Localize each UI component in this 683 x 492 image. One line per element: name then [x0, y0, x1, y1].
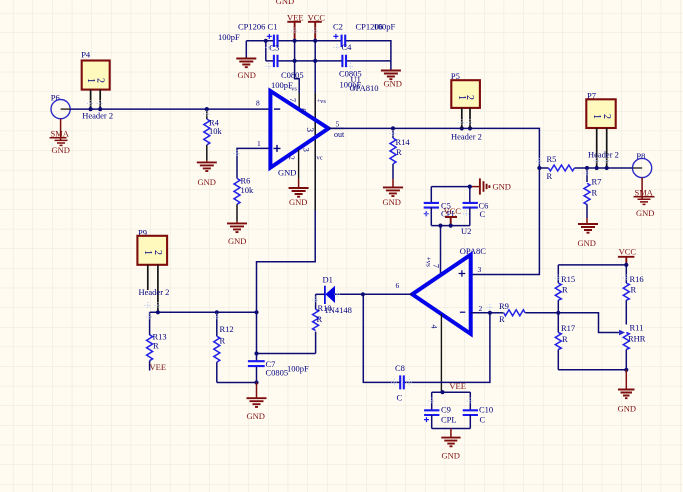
svg-text:GND: GND [228, 236, 246, 246]
op-amp U1 OPA810 [256, 86, 345, 168]
svg-text:R10: R10 [318, 303, 332, 313]
svg-text:CP1206 C1: CP1206 C1 [238, 21, 277, 31]
svg-text:+vs: +vs [317, 98, 327, 105]
power port VEE at C9/C10 [449, 381, 466, 391]
svg-text:C: C [480, 209, 486, 219]
svg-text:R: R [396, 147, 402, 157]
diode D1 1N4148 [316, 274, 413, 315]
svg-text:3: 3 [304, 127, 314, 132]
wire C5/C6 top [431, 186, 470, 188]
wire U2 pin2 row [471, 312, 490, 314]
svg-text:1: 1 [85, 78, 96, 83]
svg-text:2: 2 [601, 114, 612, 119]
svg-text:Header 2: Header 2 [451, 131, 482, 141]
svg-text:C2: C2 [333, 21, 343, 31]
svg-text:OPA8C: OPA8C [460, 246, 486, 256]
svg-text:R: R [592, 188, 598, 198]
junction dot R7 tap [585, 166, 589, 170]
svg-text:VEE: VEE [150, 362, 167, 372]
svg-text:R9: R9 [499, 301, 509, 311]
svg-text:R16: R16 [630, 274, 644, 284]
svg-text:SMA: SMA [635, 187, 654, 197]
svg-text:vc: vc [317, 155, 323, 162]
capacitor C1 [218, 21, 278, 47]
svg-text:C8: C8 [395, 363, 405, 373]
svg-text:OPA810: OPA810 [350, 83, 379, 93]
svg-text:VEE: VEE [449, 381, 466, 391]
svg-text:7: 7 [288, 98, 297, 102]
wire C5/C6 bottom [431, 225, 470, 227]
svg-text:out: out [334, 130, 345, 139]
ground below U1 [289, 179, 309, 207]
junction dots C5/C6 [438, 185, 472, 228]
svg-text:GND: GND [636, 208, 654, 218]
svg-text:1: 1 [591, 114, 602, 119]
U1 output pin stub [329, 127, 345, 129]
svg-text:5: 5 [336, 120, 340, 129]
junction dots bias net [215, 310, 259, 314]
svg-text:Header 2: Header 2 [139, 287, 170, 297]
ground below R4 [197, 160, 217, 187]
svg-text:Header 2: Header 2 [588, 150, 619, 160]
resistor R12 [214, 312, 234, 382]
potentiometer R11 RHR [623, 323, 646, 370]
svg-text:GND: GND [383, 197, 401, 207]
svg-text:CPL: CPL [441, 415, 457, 425]
header P4 [81, 50, 113, 121]
svg-text:C0805: C0805 [281, 70, 304, 80]
capacitor C3 [269, 42, 303, 90]
svg-text:VCC: VCC [619, 247, 637, 257]
connector P8 (SMA) [633, 151, 655, 218]
wire R12 bottom [217, 382, 257, 384]
svg-text:GND: GND [238, 70, 256, 80]
svg-text:8: 8 [256, 99, 260, 108]
resistor R17 [555, 313, 575, 370]
ground below C7 [247, 383, 267, 422]
resistor R16 [623, 265, 643, 325]
svg-text:R: R [562, 285, 568, 295]
wire C8 left up to D1 node [363, 294, 400, 382]
svg-text:100pF: 100pF [218, 32, 240, 42]
U2 pin4 stub [440, 314, 442, 392]
wire bottom rail [558, 369, 626, 371]
header P9 [137, 227, 169, 314]
svg-text:RHR: RHR [628, 334, 646, 344]
wire C1 row [246, 41, 391, 61]
resistor R9 [490, 301, 558, 324]
ground below R11 [618, 370, 636, 414]
junction dots pin2 net [488, 311, 561, 315]
svg-text:GND: GND [52, 145, 70, 155]
pin hotspot markers [87, 28, 630, 405]
svg-text:2: 2 [479, 304, 483, 313]
svg-text:R: R [153, 341, 159, 351]
svg-text:VCC: VCC [444, 206, 462, 216]
wire C9/C10 top [432, 391, 471, 393]
U1 ground pin stub [298, 150, 300, 179]
power port VCC right [618, 247, 637, 265]
capacitor C7 [248, 359, 309, 378]
wire below C7 [256, 366, 258, 382]
resistor R6 [234, 175, 254, 221]
wiper arrow [619, 330, 625, 336]
svg-text:R: R [562, 334, 568, 344]
svg-text:R: R [547, 171, 553, 181]
svg-text:P4: P4 [81, 50, 91, 60]
svg-text:R17: R17 [561, 323, 575, 333]
svg-text:Header 2: Header 2 [82, 110, 113, 120]
svg-text:GND: GND [198, 177, 216, 187]
wire R10 bottom to C7 node [257, 353, 316, 355]
wire C3 row [266, 41, 391, 61]
svg-text:1: 1 [257, 139, 261, 148]
wire VCC top rail [558, 264, 626, 266]
svg-text:C10: C10 [479, 405, 493, 415]
svg-text:C: C [480, 415, 486, 425]
svg-text:R12: R12 [220, 324, 234, 334]
capacitor C6 [463, 187, 489, 226]
resistor R10 [313, 294, 332, 353]
svg-text:100pF: 100pF [374, 21, 396, 31]
svg-text:U2: U2 [461, 226, 471, 236]
wire U1 pin1 [237, 148, 270, 178]
resistor R7 [584, 168, 601, 218]
connector P6 (SMA) [50, 92, 71, 154]
ground bar right of C6 [470, 178, 511, 194]
svg-text:2: 2 [287, 156, 296, 160]
wire VCC rail down through U1 to feedback corner [257, 41, 316, 362]
header P5 [451, 71, 482, 141]
svg-text:D1: D1 [323, 274, 333, 284]
capacitor C10 [463, 392, 493, 428]
capacitor C2 [333, 21, 396, 47]
svg-text:2: 2 [95, 78, 106, 83]
svg-text:10k: 10k [209, 126, 223, 136]
wire bottom-left bias net [150, 311, 257, 313]
svg-text:GND: GND [276, 0, 294, 6]
ground left of C1 [236, 41, 256, 80]
svg-text:-vs: -vs [289, 86, 297, 93]
svg-text:2: 2 [464, 95, 475, 100]
ground below R14 [383, 179, 404, 207]
ground below R6 [227, 221, 247, 246]
wire C9/C10 bottom [432, 428, 471, 430]
capacitor C4 [339, 42, 378, 93]
ground right of C2 [381, 61, 402, 89]
svg-text:GND: GND [289, 197, 307, 207]
svg-text:3: 3 [478, 265, 482, 274]
svg-text:C0805: C0805 [266, 367, 289, 377]
svg-text:C9: C9 [441, 405, 451, 415]
svg-text:GND: GND [247, 411, 265, 421]
resistor R15 [555, 265, 575, 313]
svg-text:R: R [220, 336, 226, 346]
capacitor C5 [424, 187, 457, 226]
svg-text:R14: R14 [396, 137, 411, 147]
resistor R14 [390, 128, 410, 179]
svg-text:+vs: +vs [424, 257, 432, 267]
capacitor C8 [395, 363, 405, 403]
svg-text:6: 6 [298, 108, 307, 112]
wire R11 wiper [558, 313, 619, 333]
capacitor C9 [424, 392, 457, 428]
svg-text:R6: R6 [241, 175, 251, 185]
resistor R5 [539, 154, 632, 181]
svg-text:C: C [397, 393, 403, 403]
svg-text:100pF: 100pF [287, 364, 309, 374]
resistor R13 [147, 312, 167, 370]
svg-text:3: 3 [301, 148, 310, 152]
svg-text:R15: R15 [561, 274, 575, 284]
power port VEE [287, 12, 304, 40]
svg-text:7: 7 [432, 264, 441, 268]
svg-text:10k: 10k [241, 185, 255, 195]
svg-text:R11: R11 [630, 323, 644, 333]
wire VEE rail down to U1 -vs pin [295, 41, 300, 93]
svg-text:4: 4 [430, 325, 439, 329]
wire U2 +vs pin [440, 226, 442, 275]
svg-text:GND: GND [442, 451, 460, 461]
svg-text:R: R [317, 314, 323, 324]
svg-text:6: 6 [396, 281, 400, 290]
junction dot D1 node [361, 292, 365, 296]
svg-text:GND: GND [384, 79, 402, 89]
svg-text:R7: R7 [592, 177, 602, 187]
svg-text:2: 2 [152, 250, 163, 255]
power port VCC at C5/C6 [444, 206, 462, 226]
svg-text:R: R [631, 285, 637, 295]
ground below R7 [578, 218, 599, 248]
svg-text:1: 1 [142, 250, 153, 255]
junction dots top cluster [264, 39, 318, 63]
svg-text:GND: GND [618, 403, 636, 413]
svg-text:GND: GND [278, 168, 296, 178]
svg-text:R5: R5 [547, 154, 557, 164]
header P7 [586, 90, 619, 170]
svg-text:GND: GND [493, 182, 511, 192]
op-amp U2 OPA8C [396, 226, 487, 334]
svg-text:R: R [499, 314, 505, 324]
svg-text:GND: GND [578, 238, 596, 248]
svg-text:C4: C4 [342, 42, 353, 52]
wire main input net [70, 108, 270, 110]
ground below C9/C10 [441, 429, 460, 461]
wire U1 output to U2 pin3 [329, 128, 540, 274]
power port VCC [308, 12, 326, 40]
wire pin2 down to C8 [404, 313, 490, 383]
resistor R4 [204, 107, 223, 160]
junction dots output net [391, 126, 542, 170]
